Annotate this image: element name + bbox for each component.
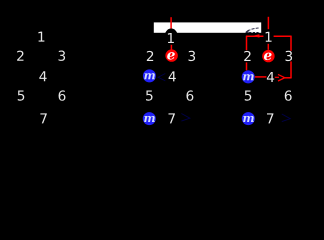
node 1 (left tree) [38, 32, 44, 42]
node 2 (middle) [147, 51, 153, 61]
node 7 (left tree) [40, 113, 46, 123]
wire: red line m to node 4 (right) [255, 76, 267, 78]
node 2 (left tree) [17, 51, 23, 61]
node 6 (middle) [186, 90, 193, 100]
node 5 (middle) [146, 91, 152, 101]
marker e circle (middle) [165, 49, 177, 61]
thread arrow 7-> pointing right (middle) [181, 114, 190, 122]
marker m circle at row 7 (right) [242, 112, 255, 125]
wire: red bracket right vertical below node 3 [290, 61, 292, 77]
node 3 (right) [286, 51, 293, 61]
node 5 (left tree) [18, 91, 24, 101]
node 3 (left tree) [59, 51, 66, 61]
white array bar [154, 22, 261, 32]
marker m circle at row 4 (right) [242, 70, 255, 83]
wire: red bracket right horizontal [274, 35, 292, 37]
marker m circle at row 4 (middle) [143, 69, 156, 82]
node 5 (right) [245, 91, 251, 101]
wire: red line above node 1 (right) [267, 17, 269, 29]
wire: red bracket right vertical above node 3 [290, 36, 292, 51]
marker m glyph row 7 (middle) [144, 116, 155, 122]
marker m circle at row 7 (middle) [143, 112, 156, 125]
red thread arrow 4-> pointing right [275, 74, 285, 81]
node 1 (right) [266, 32, 272, 42]
wire: red bracket left vertical to node 2 [246, 36, 248, 50]
marker m glyph row 7 (right) [243, 116, 254, 122]
red arrowhead pointing left at bar cursor [252, 34, 259, 37]
marker e glyph (right) [264, 53, 272, 60]
thread arrow 4->m pointing left (middle) [158, 74, 165, 81]
node 1 label (middle) [168, 33, 174, 43]
node 4 (middle) [169, 71, 176, 81]
node 3 (middle) [189, 51, 196, 61]
node 7 (right) [267, 113, 273, 123]
node 4 (left tree) [39, 71, 46, 81]
wire: red dash node 1 to e (middle) [170, 45, 172, 50]
wire: red dash node 2 to m (right) [246, 62, 248, 70]
cursor swoosh on bar [246, 28, 259, 33]
node 7 (middle) [168, 113, 174, 123]
wire: red dash node 1 to e (right) [267, 44, 269, 50]
wire: red bracket left horizontal [246, 35, 264, 37]
node 2 (right) [244, 51, 250, 61]
node 6 (left tree) [59, 90, 66, 100]
marker e circle (right) [262, 50, 274, 62]
thread arrow 7-> pointing right (right) [282, 114, 291, 122]
wire: red line through bar to node 1 (middle) [170, 17, 172, 33]
node 4 (right) [267, 72, 274, 82]
marker m glyph row 4 (middle) [144, 73, 155, 79]
marker e glyph (middle) [167, 52, 175, 59]
node 1 fill circle (middle) [164, 29, 178, 48]
marker m glyph row 4 (right) [243, 74, 254, 80]
wire: red corner horizontal at row 4 [285, 77, 292, 79]
node 6 (right) [285, 90, 292, 100]
